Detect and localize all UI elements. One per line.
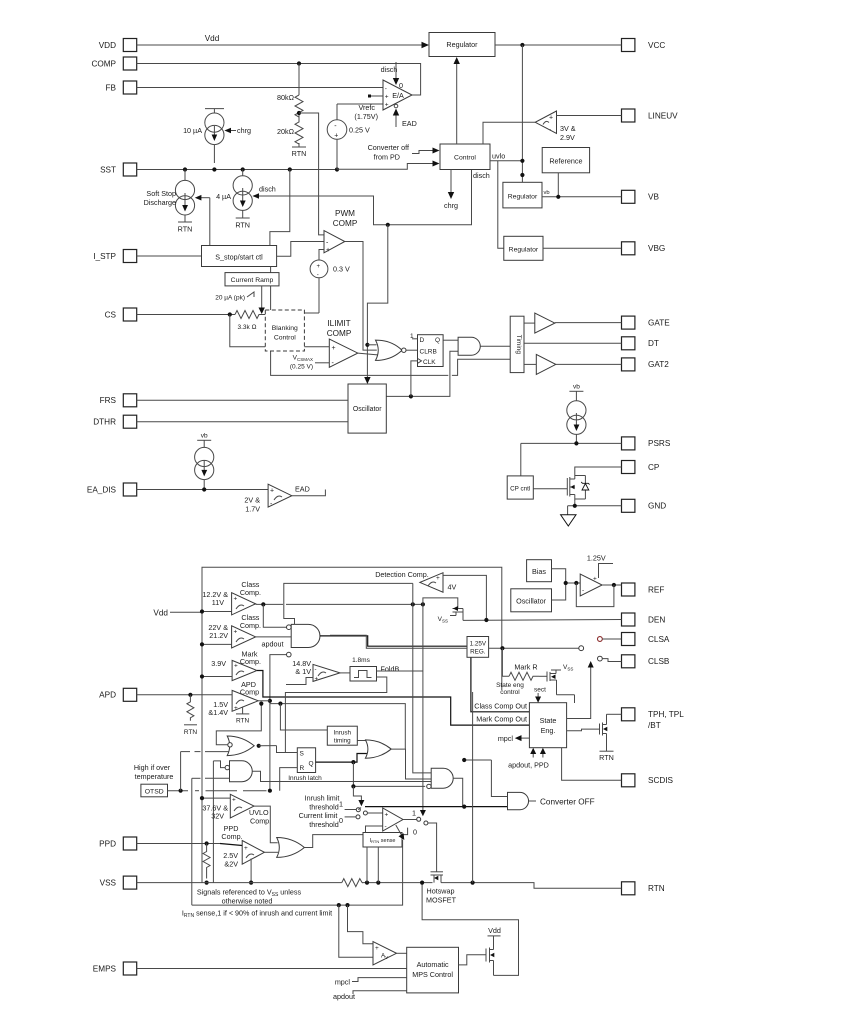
wire rail uvlo/vcc down to Regulator(VB) [521, 45, 523, 182]
svg-text:EA_DIS: EA_DIS [87, 485, 117, 494]
wire FoldB out to mux2 select [377, 670, 423, 672]
svg-text:Converter OFF: Converter OFF [540, 798, 595, 807]
svg-text:+: + [244, 845, 248, 852]
wire converter off top input [491, 760, 507, 797]
wire foldb one-shot to inrush timing [270, 704, 405, 750]
svg-text:+: + [375, 945, 379, 952]
wire NOR lower input from OTSD (hops) [181, 751, 190, 753]
svg-text:VCC: VCC [648, 41, 665, 50]
wire ILIMIT output to NOR [358, 353, 378, 355]
arrow chrg below control [450, 170, 452, 195]
svg-text:RTN: RTN [236, 718, 250, 725]
wire EMPS to MPS block [137, 968, 407, 970]
block OTSD [141, 784, 168, 797]
wire divider tap to PWM comp rail [299, 113, 324, 235]
svg-text:2.9V: 2.9V [560, 133, 575, 142]
wire State Eng to SCDIS [562, 748, 622, 781]
pin VSS [100, 876, 137, 889]
svg-text:RTN: RTN [648, 884, 665, 893]
svg-text:mpcl: mpcl [335, 978, 351, 987]
block Automatic MPS Control [407, 947, 459, 993]
svg-text:disch: disch [473, 171, 490, 180]
wire amp minus feedback [366, 826, 383, 833]
latch Inrush S/R [297, 748, 315, 773]
resistor APD to RTN [187, 695, 194, 721]
pin REF [622, 583, 665, 596]
svg-text:0.25 V: 0.25 V [349, 126, 370, 135]
wire Q branch down to converter AND bubble [353, 762, 425, 786]
svg-text:2V &: 2V & [244, 496, 260, 505]
current source EA_DIS [195, 440, 214, 489]
node SST junctions [183, 167, 187, 171]
svg-text:-: - [317, 273, 319, 279]
wire NOR out to CLRB [406, 349, 418, 351]
wire sense line to Av minus [339, 905, 373, 957]
wire blanking to ILIMIT plus [304, 346, 329, 348]
wire disch path from Control to 4uA source [256, 170, 472, 225]
pin CLSA [622, 633, 670, 646]
svg-text:Vdd: Vdd [153, 609, 168, 618]
wire APD pin to comp [137, 694, 232, 696]
svg-text:+: + [549, 115, 553, 122]
transistor TPH MOSFET [567, 729, 600, 731]
wire PPD comp lower input to VSS [250, 859, 252, 883]
svg-text:S: S [300, 751, 305, 758]
ground RTN under 20k [298, 143, 300, 147]
block Oscillator (PoE) [511, 589, 552, 612]
svg-text:RTN: RTN [599, 753, 614, 762]
wire Mark Comp Out to State Eng [257, 671, 530, 726]
svg-text:1: 1 [412, 809, 416, 818]
wire state eng to CLSB select arrow [567, 665, 591, 719]
svg-text:High if over: High if over [134, 763, 171, 772]
wire Vrefc stub [370, 95, 383, 97]
wire VSS net [137, 882, 342, 884]
svg-text:FB: FB [106, 83, 117, 92]
wire foldb comp lower stub [286, 678, 313, 685]
op-amp inrush error amp [383, 808, 403, 831]
svg-text:otherwise noted: otherwise noted [222, 897, 273, 906]
svg-text:(0.25 V): (0.25 V) [290, 364, 313, 371]
wire DTHR to oscillator [137, 421, 348, 423]
wire VSS to RTN pin [441, 883, 622, 889]
svg-text:Class Comp Out: Class Comp Out [474, 702, 527, 711]
wire class1 lower input from Vdd rail [202, 611, 232, 613]
wire vcsmax stub [315, 362, 329, 364]
svg-text:1: 1 [339, 800, 343, 809]
pin CS [105, 308, 137, 321]
svg-text:Inrush: Inrush [334, 730, 352, 737]
svg-text:MPS Control: MPS Control [412, 970, 453, 979]
pin LINEUV [622, 109, 679, 122]
wire NOR top input stub [367, 344, 376, 346]
svg-text:Timing: Timing [515, 335, 522, 355]
svg-text:VSS: VSS [100, 878, 117, 887]
pin DTHR [93, 415, 136, 428]
svg-text:from PD: from PD [374, 153, 400, 162]
wire 0.3V to PWM plus [319, 250, 324, 261]
svg-text:GAT2: GAT2 [648, 360, 669, 369]
block CP cntl [507, 476, 533, 499]
wire MPS out to Vdd MOSFET gate [459, 955, 487, 965]
svg-text:Automatic: Automatic [417, 960, 449, 969]
wire foldb comp out to one-shot [340, 672, 350, 674]
svg-text:uvlo: uvlo [492, 152, 505, 161]
svg-text:0: 0 [399, 81, 403, 90]
wire class1 out branch down to class AND bubble [263, 604, 286, 627]
block Oscillator [348, 384, 386, 433]
wire one-shot lower branch to latch S [285, 677, 386, 753]
wire SST branch into S_stop top [270, 170, 290, 246]
node class1 output junction [256, 603, 283, 605]
svg-text:IRTN sense: IRTN sense [370, 838, 396, 844]
svg-text:+: + [234, 663, 238, 670]
svg-text:RTN: RTN [178, 225, 193, 234]
wire second input into Control [337, 164, 436, 170]
svg-text:Detection Comp.: Detection Comp. [375, 570, 429, 579]
wire I_STP to S_stop block [137, 255, 202, 257]
wire PSRS branch down to CP cntl [520, 443, 522, 476]
svg-text:VDD: VDD [99, 41, 116, 50]
svg-text:vb: vb [544, 190, 550, 196]
svg-text:EAD: EAD [295, 485, 310, 494]
svg-text:-: - [385, 86, 387, 93]
svg-text:-: - [315, 667, 317, 673]
pin DT [622, 337, 659, 350]
wire threshold line to converter gate [358, 808, 361, 810]
svg-text:4V: 4V [448, 583, 457, 592]
gate NOR (3-in) before flip-flop [376, 340, 403, 360]
svg-text:Comp.: Comp. [250, 817, 271, 826]
block Regulator (VBG) [504, 236, 543, 260]
pin VBG [622, 242, 666, 255]
wire branch to Regulator (VBG) [498, 161, 504, 249]
svg-text:Regulator: Regulator [446, 40, 478, 49]
pin GND [622, 499, 667, 512]
wire NOR upper input from timing line [216, 704, 261, 745]
svg-text:& 1V: & 1V [295, 667, 311, 676]
wire PPD pin to comp [137, 843, 220, 845]
node junction COMP/80k [297, 61, 301, 65]
wire PPD comp out to OR2 [264, 851, 278, 853]
svg-text:Vdd: Vdd [488, 926, 501, 935]
wire sense line to Av plus [348, 905, 374, 944]
svg-text:GATE: GATE [648, 318, 670, 327]
current source 4uA (disch) [233, 170, 252, 219]
label Converter OFF [529, 800, 537, 802]
svg-text:GND: GND [648, 502, 666, 511]
transistor sect MOSFET with Vss [539, 670, 575, 703]
node junction divider tap [297, 111, 301, 115]
svg-text:4 µA: 4 µA [216, 192, 231, 201]
svg-text:0.3 V: 0.3 V [333, 265, 350, 274]
rail from NOR lower input down [212, 761, 214, 883]
svg-text:PWM: PWM [335, 209, 355, 218]
wire apdout rail [270, 655, 287, 791]
op-amp Av [373, 942, 397, 965]
pin VDD [99, 39, 137, 52]
svg-text:Control: Control [454, 155, 476, 162]
wire AND upper input [213, 761, 225, 768]
wire Reference to VB net [557, 173, 559, 197]
pin SST [100, 163, 137, 176]
svg-text:R: R [300, 765, 305, 772]
svg-text:CP cntl: CP cntl [510, 486, 530, 493]
gate AND (PWM gate) [458, 337, 480, 355]
svg-text:apdout, PPD: apdout, PPD [508, 761, 549, 770]
svg-text:-: - [582, 587, 584, 594]
svg-text:FRS: FRS [100, 396, 117, 405]
wire EAD output [292, 490, 326, 496]
svg-text:LINEUV: LINEUV [648, 111, 678, 120]
wire uvlo to rail [490, 160, 522, 162]
comparator Detection (points left) [420, 573, 443, 593]
svg-text:REF: REF [648, 585, 664, 594]
svg-text:CLSA: CLSA [648, 635, 670, 644]
wire EA_DIS net [137, 489, 268, 491]
wire GND net [568, 505, 622, 507]
wire bias/osc to REF buffer [552, 569, 566, 600]
rail converter AND down to RTN line [472, 692, 474, 883]
svg-text:+: + [232, 797, 236, 804]
svg-text:Mark R: Mark R [514, 663, 537, 672]
svg-text:+: + [234, 596, 238, 603]
comparator UVLO [230, 794, 254, 818]
svg-text:vb: vb [573, 384, 580, 391]
diode zener at CP MOSFET [575, 476, 586, 500]
svg-text:chrg: chrg [444, 201, 458, 210]
arrow current ramp into CS wire [261, 286, 263, 310]
svg-text:Control: Control [274, 335, 296, 342]
svg-text:EMPS: EMPS [93, 964, 117, 973]
gate AND (otsd b) [230, 761, 253, 782]
svg-text:Oscillator: Oscillator [516, 597, 547, 606]
wire OR2 out [304, 828, 407, 848]
wire oscillator clock to CLK and AND [386, 351, 458, 396]
svg-text:Hotswap: Hotswap [427, 887, 455, 896]
svg-text:+: + [315, 677, 319, 683]
svg-text:+: + [436, 575, 440, 582]
wire detection out rail down to converter AND [413, 583, 431, 773]
wire rail class line down to mux2 select [422, 604, 424, 812]
svg-text:RTN: RTN [235, 221, 250, 230]
svg-text:Q: Q [309, 761, 314, 768]
voltage source 0.3V [310, 260, 328, 313]
wire timing feedback hop and riser into Timing [452, 359, 510, 375]
switch CLSA contact [579, 646, 584, 651]
wire class1 out long line to DEN mosfet [286, 603, 423, 605]
svg-text:Regulator: Regulator [509, 247, 539, 254]
transistor Vss MOSFET (DEN) [450, 609, 463, 621]
wire gray loop from MPS mosfet up to VSS [422, 883, 518, 976]
op-amp REF buffer [580, 574, 602, 596]
wire detection plus input loop to DEN node [443, 575, 486, 620]
svg-text:+: + [385, 94, 389, 101]
svg-text:RTN: RTN [292, 149, 307, 158]
wire CP pin to MOSFET drain [575, 467, 622, 473]
gate Converter OFF AND [508, 792, 529, 809]
svg-text:Oscillator: Oscillator [353, 406, 382, 413]
wire disch rail down to NOR and oscillator [367, 225, 387, 381]
current source Soft Stop Discharge [175, 170, 194, 223]
svg-text:DT: DT [648, 339, 659, 348]
wire REF feedback loop [576, 583, 614, 607]
wire into Inrush timing [280, 704, 327, 730]
svg-text:VB: VB [648, 193, 659, 202]
pin TPH,TPL/BT [622, 708, 685, 730]
ground RTN under 4uA [236, 217, 250, 219]
svg-text:Reference: Reference [549, 157, 582, 166]
wire converter AND out [453, 778, 463, 806]
svg-text:I_STP: I_STP [93, 252, 116, 261]
svg-text:DTHR: DTHR [93, 418, 116, 427]
svg-text:Q: Q [435, 337, 440, 344]
wire state eng control riser [500, 646, 504, 650]
pin I_STP [93, 250, 136, 263]
ground RTN under TPH MOSFET [600, 750, 614, 752]
wire gate from CP cntl [533, 488, 567, 490]
resistor in VSS line [342, 879, 362, 887]
resistor PPD [203, 844, 210, 879]
svg-text:CLK: CLK [423, 359, 436, 366]
svg-text:VBG: VBG [648, 244, 665, 253]
svg-text:IRTN sense,1 if < 90% of inrus: IRTN sense,1 if < 90% of inrush and curr… [182, 909, 332, 920]
svg-text:1.25V: 1.25V [470, 641, 487, 648]
svg-text:DEN: DEN [648, 615, 665, 624]
svg-text:disch: disch [381, 65, 398, 74]
pin FB [106, 81, 137, 94]
svg-text:0: 0 [339, 816, 343, 825]
svg-text:CLRB: CLRB [420, 349, 437, 356]
node junction on VCC wire [520, 43, 524, 47]
svg-text:+: + [317, 264, 321, 270]
svg-text:threshold: threshold [309, 820, 339, 829]
block Blanking Control (dashed) [265, 310, 304, 351]
pin DEN [622, 613, 666, 626]
transistor CP MOSFET [567, 473, 575, 502]
label apdout,PPD arrows into State Eng [532, 752, 534, 758]
pin PPD [99, 837, 137, 850]
svg-text:20kΩ: 20kΩ [277, 127, 295, 136]
svg-text:/BT: /BT [648, 721, 661, 730]
svg-text:CP: CP [648, 463, 660, 472]
wire mux2 out to hotswap gate [428, 823, 437, 872]
wire AND lower input from sense rail (hops) [192, 777, 201, 779]
wire OTSD hop segments [195, 790, 199, 792]
svg-text:MOSFET: MOSFET [426, 896, 457, 905]
svg-text:0: 0 [413, 828, 417, 837]
arrow Control up to Regulator [456, 61, 458, 144]
pin APD [99, 688, 137, 701]
gate class AND [291, 624, 320, 647]
svg-text:11V: 11V [212, 598, 224, 607]
wire UVLO top input from rail [202, 797, 230, 799]
gate OR inrush [365, 740, 391, 758]
wire GATE out [555, 322, 622, 324]
gate NOR (otsd a) [227, 736, 254, 756]
op-amp E/A error amplifier [383, 80, 412, 110]
svg-text:SST: SST [100, 165, 116, 174]
svg-text:+: + [385, 102, 389, 109]
svg-text:1.8ms: 1.8ms [352, 657, 370, 664]
svg-text:EAD: EAD [402, 119, 417, 128]
svg-text:S_stop/start ctl: S_stop/start ctl [215, 253, 263, 262]
svg-text:temperature: temperature [135, 772, 174, 781]
svg-text:21.2V: 21.2V [209, 631, 228, 640]
block State Eng [529, 703, 566, 748]
svg-text:apdout: apdout [262, 640, 284, 649]
ground RTN under soft stop [178, 221, 192, 223]
svg-text:+: + [334, 133, 338, 140]
svg-text:+: + [234, 629, 238, 636]
svg-text:Vdd: Vdd [205, 34, 220, 43]
svg-text:Converter off: Converter off [368, 143, 409, 152]
wire latch S input [277, 746, 298, 753]
ground RTN under APD comp [242, 707, 244, 714]
svg-text:RTN: RTN [184, 729, 198, 736]
pin VB [622, 190, 660, 203]
pin VCC [622, 39, 666, 52]
svg-text:D: D [420, 337, 425, 344]
svg-text:80kΩ: 80kΩ [277, 93, 295, 102]
pin CLSB [622, 655, 670, 668]
svg-text:(1.75V): (1.75V) [354, 112, 378, 121]
svg-text:chrg: chrg [237, 126, 251, 135]
wire class1-line up-over to Vss MOSFET drain [423, 598, 458, 609]
node junction NOR top input [365, 343, 369, 347]
pin SCDIS [622, 774, 674, 787]
svg-text:Regulator: Regulator [508, 194, 538, 201]
wire inrush timing to OR [357, 740, 367, 742]
resistor 80k [298, 64, 300, 96]
wire VBG out [543, 247, 622, 249]
wire NOR out to latch S [259, 745, 277, 747]
wire FB to E/A inverting input [137, 87, 383, 89]
label EAD arrow into E/A [394, 104, 398, 108]
svg-text:Vrefc: Vrefc [358, 103, 375, 112]
wire timing feedback to S_stop bottom [271, 267, 449, 376]
svg-text:Blanking: Blanking [272, 325, 298, 332]
svg-text:3V &: 3V & [560, 124, 576, 133]
wire class2 lower input from Vdd rail [202, 643, 232, 645]
svg-text:APD: APD [99, 691, 116, 700]
wire mux1 select arrow from latch rail [351, 784, 355, 788]
pin GATE [622, 316, 671, 329]
wire CS [137, 314, 235, 316]
svg-text:&2V: &2V [224, 860, 238, 869]
pin GAT2 [622, 358, 670, 371]
comparator LINEUV (points left) [535, 111, 556, 133]
driver buffer GAT2 [536, 354, 556, 374]
block Regulator (VB) [503, 182, 542, 208]
svg-text:COMP: COMP [91, 59, 116, 68]
svg-text:CLSB: CLSB [648, 657, 670, 666]
wire Q to AND [443, 339, 458, 341]
svg-text:E/A: E/A [392, 91, 404, 100]
pin PSRS [622, 437, 671, 450]
svg-text:Inrush latch: Inrush latch [288, 775, 322, 782]
svg-text:TPH, TPL: TPH, TPL [648, 710, 684, 719]
comparator EA disable [268, 484, 292, 507]
svg-text:State: State [540, 716, 557, 725]
svg-text:apdout: apdout [333, 992, 355, 1001]
node junction disch/down-rail [386, 223, 390, 227]
wire CS branch to blanking lower input [230, 315, 265, 347]
svg-text:timing: timing [334, 738, 351, 745]
svg-text:vb: vb [201, 433, 208, 440]
transistor Vdd MOSFET [486, 936, 494, 976]
svg-text:+: + [234, 705, 238, 712]
